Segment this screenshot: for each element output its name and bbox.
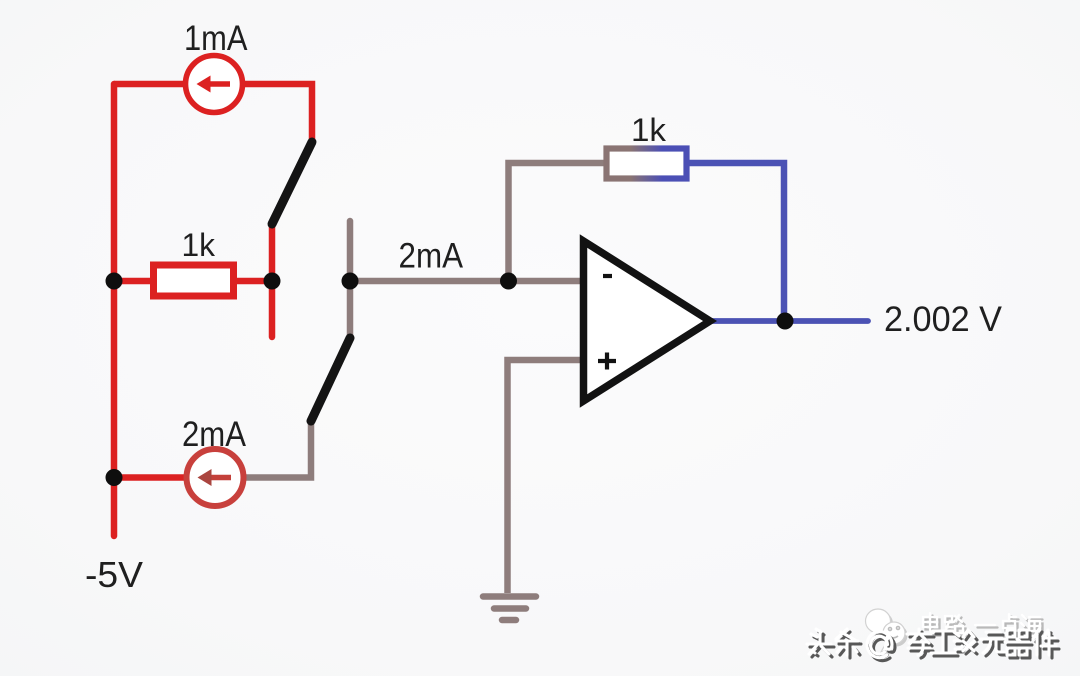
node junction R1-switch: [264, 273, 281, 290]
current source I1 1mA: [184, 19, 248, 113]
node junction left-R1: [106, 273, 123, 290]
op-amp U1: [584, 241, 711, 401]
svg-text:2mA: 2mA: [399, 237, 464, 276]
svg-text:2mA: 2mA: [182, 415, 247, 454]
switch S2: [311, 338, 350, 421]
svg-text:1k: 1k: [182, 227, 216, 263]
wire gray feedback left vertical: [509, 163, 646, 281]
resistor R1 1k: [154, 227, 234, 296]
svg-text:-5V: -5V: [85, 554, 143, 595]
wire red 1mA source to switch top: [214, 84, 312, 142]
wire red left rail: [111, 84, 118, 536]
switch S1: [272, 142, 312, 224]
wire gray 2mA source to switch S2: [215, 421, 311, 478]
svg-text:2.002 V: 2.002 V: [884, 300, 1003, 339]
wire gray node 2mA to op-amp inverting input: [350, 278, 583, 285]
wire red switch bottom to node: [269, 224, 276, 281]
watermark: [807, 609, 1059, 661]
resistor R2 1k feedback: [607, 112, 687, 179]
node junction 2mA net: [342, 273, 359, 290]
ground: [483, 597, 536, 621]
watermark text small 电路一点通: [926, 616, 1044, 639]
wire gray node 2mA down to switch S2: [347, 281, 354, 338]
node junction left-2mA: [106, 469, 123, 486]
wire red across resistor R1: [114, 278, 272, 285]
wire red top to 1mA source: [114, 81, 214, 88]
wire red open stub below node: [269, 281, 276, 337]
current source I2 2mA: [182, 415, 247, 506]
wire gray op-amp noninverting input to ground: [508, 360, 584, 593]
watermark text big 头条 @李工谈元器件: [810, 632, 1059, 661]
wire blue output: [712, 318, 868, 324]
svg-text:1k: 1k: [631, 112, 667, 148]
wire blue feedback right: [645, 163, 784, 321]
node junction feedback: [500, 273, 517, 290]
wire gray stub above node 2mA: [347, 221, 354, 281]
watermark logo bubble: [868, 612, 908, 655]
wire red bottom rail to 2mA source: [114, 474, 215, 481]
node junction output: [777, 313, 794, 330]
svg-text:1mA: 1mA: [184, 19, 248, 58]
